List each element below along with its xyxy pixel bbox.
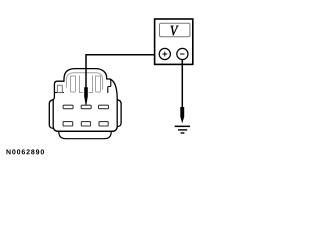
ground G1 (earth ground symbol) [175,126,190,128]
wire from connector pin up and right to voltmeter + terminal [86,55,162,89]
connector C1 right bump [117,100,121,127]
pin slot row1 left [63,105,73,109]
connector body bottom edge (over tab) [57,130,114,132]
voltmeter U1 (digital voltmeter box) [155,19,193,64]
voltmeter V label [171,26,179,36]
right ear notch [108,79,111,93]
connector C1 left bump [49,100,53,129]
pin slot row1 middle [81,105,91,109]
voltmeter + terminal [159,48,170,59]
connector bottom tab [59,131,111,139]
left ear bottom line [54,92,63,94]
voltmeter - terminal [177,48,188,59]
figure number N0062890 [6,149,44,154]
probe arrowhead into connector pin [84,87,88,105]
dome tooth left [71,76,76,92]
voltmeter display window [160,23,190,36]
pin slot row2 right [99,122,108,126]
dome central channel [80,76,93,93]
dome tooth right [96,76,101,92]
left ear inner notch [57,85,62,92]
pin slot row1 right [99,105,109,109]
connector C1 body outline (with top dome and ears) [53,69,117,132]
dome inner line [66,73,102,90]
pin slot row2 middle [81,122,90,126]
wire from voltmeter - terminal down to ground [181,60,183,108]
ground arrowhead [180,107,184,123]
pin slot row2 left [63,122,73,126]
